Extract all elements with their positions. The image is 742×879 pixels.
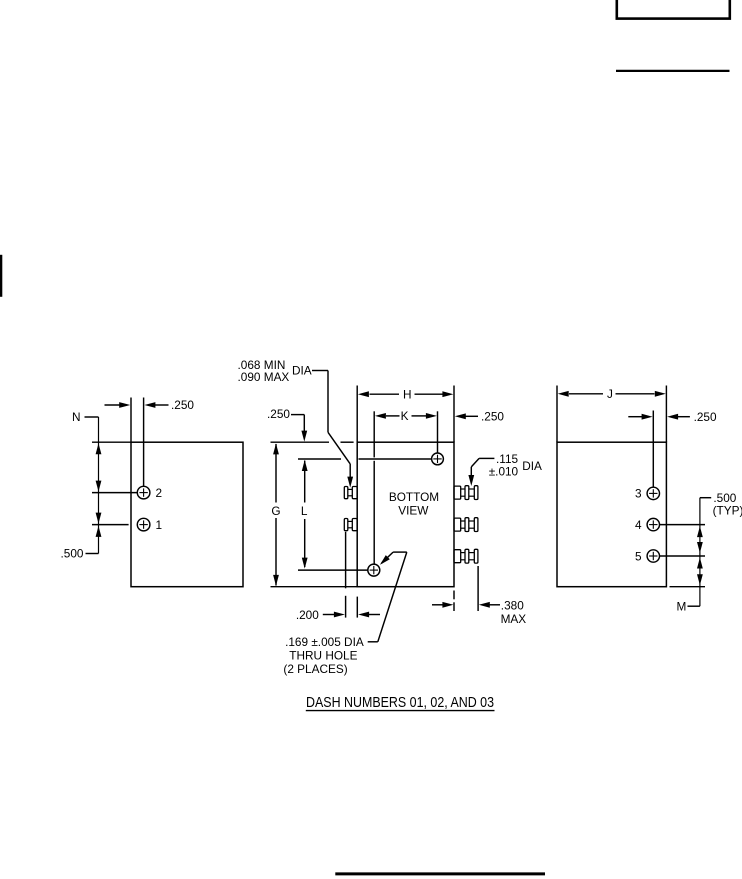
svg-text:L: L	[301, 504, 308, 518]
svg-text:4: 4	[635, 518, 642, 532]
svg-text:.250: .250	[171, 398, 194, 412]
svg-text:.169 ±.005 DIA: .169 ±.005 DIA	[285, 635, 364, 649]
svg-text:(TYP): (TYP)	[713, 504, 742, 518]
svg-text:DASH NUMBERS 01, 02, AND 0: DASH NUMBERS 01, 02, AND 03	[306, 695, 494, 711]
svg-text:.250: .250	[481, 410, 504, 424]
svg-text:5: 5	[635, 549, 642, 563]
svg-text:G: G	[271, 504, 280, 518]
svg-text:N: N	[72, 410, 81, 424]
svg-text:.380: .380	[501, 598, 524, 612]
svg-text:DIA: DIA	[522, 459, 542, 473]
svg-text:.250: .250	[267, 407, 290, 421]
svg-text:H: H	[403, 387, 412, 401]
svg-text:J: J	[607, 387, 613, 401]
svg-text:VIEW: VIEW	[398, 503, 429, 517]
svg-text:(2 PLACES): (2 PLACES)	[283, 662, 347, 676]
svg-text:2: 2	[156, 486, 163, 500]
svg-text:BOTTOM: BOTTOM	[389, 490, 439, 504]
svg-text:.500: .500	[61, 547, 84, 561]
svg-text:.250: .250	[694, 410, 717, 424]
svg-text:MAX: MAX	[501, 612, 527, 626]
svg-text:.200: .200	[296, 608, 319, 622]
svg-text:3: 3	[635, 487, 642, 501]
svg-text:THRU HOLE: THRU HOLE	[289, 649, 357, 663]
svg-text:K: K	[401, 409, 409, 423]
svg-text:±.010: ±.010	[489, 465, 519, 479]
svg-text:M: M	[677, 600, 687, 614]
svg-text:DIA: DIA	[292, 364, 312, 378]
svg-text:1: 1	[156, 518, 163, 532]
svg-text:.090 MAX: .090 MAX	[238, 370, 290, 384]
